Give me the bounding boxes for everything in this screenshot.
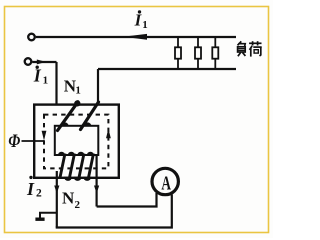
svg-text:I: I xyxy=(26,179,35,199)
ammeter A1 xyxy=(152,168,178,194)
resistor load 3 xyxy=(212,37,218,69)
wire primary left lead xyxy=(55,62,57,129)
svg-text:2: 2 xyxy=(36,187,42,199)
label I1 lower xyxy=(33,66,48,87)
winding N1 turn stroke a xyxy=(58,102,79,131)
winding N1 bump on window edge a xyxy=(61,122,69,126)
winding N2 lower bumps xyxy=(64,177,72,181)
wire secondary right lead xyxy=(95,156,97,207)
label N2 xyxy=(62,189,81,212)
ground bar xyxy=(35,217,44,220)
core inner window rectangle xyxy=(55,126,99,155)
current arrow I2 right lead (down) xyxy=(94,186,99,194)
current arrow I2 left lead (down) xyxy=(54,186,59,194)
winding N1 bump over core edge xyxy=(74,100,80,106)
flux arrow left (down) xyxy=(42,131,47,141)
svg-text:N: N xyxy=(62,189,75,208)
svg-text:1: 1 xyxy=(43,74,49,86)
winding N2 upper bumps xyxy=(58,152,65,156)
terminal T2 xyxy=(25,58,32,65)
svg-text:A: A xyxy=(161,172,171,194)
label I1 top xyxy=(134,10,148,31)
ground branch wire xyxy=(40,213,57,218)
winding N1 turn stroke b xyxy=(81,102,99,130)
winding N1 bump on window edge b xyxy=(84,122,92,126)
label N1 xyxy=(64,77,81,97)
resistor load 2 xyxy=(195,37,201,69)
winding N2 slant strokes xyxy=(60,154,65,179)
current arrow I1 in xyxy=(37,60,46,65)
wire to ammeter xyxy=(97,193,157,207)
wire from T2 to elbow xyxy=(32,61,56,63)
wire top line xyxy=(36,36,236,38)
wire secondary left lead xyxy=(56,171,58,228)
phi pointer line xyxy=(22,140,45,142)
label I2 xyxy=(26,176,42,200)
flux path dashed rectangle xyxy=(44,115,108,169)
svg-text:Φ: Φ xyxy=(8,131,20,152)
current arrow I1 on top wire xyxy=(123,34,147,40)
resistor load 1 xyxy=(175,37,181,69)
border frame (decorative) xyxy=(5,7,269,233)
flux arrow right (up) xyxy=(106,129,111,139)
wire ammeter return xyxy=(56,195,172,228)
wire load bottom return xyxy=(98,68,236,70)
label fuhe (load) xyxy=(238,41,262,56)
terminal T1 xyxy=(28,34,35,41)
core outer rectangle xyxy=(34,105,119,178)
svg-text:1: 1 xyxy=(75,85,81,97)
svg-text:1: 1 xyxy=(142,19,148,31)
svg-text:2: 2 xyxy=(75,199,81,211)
wire primary right lead xyxy=(97,69,99,103)
